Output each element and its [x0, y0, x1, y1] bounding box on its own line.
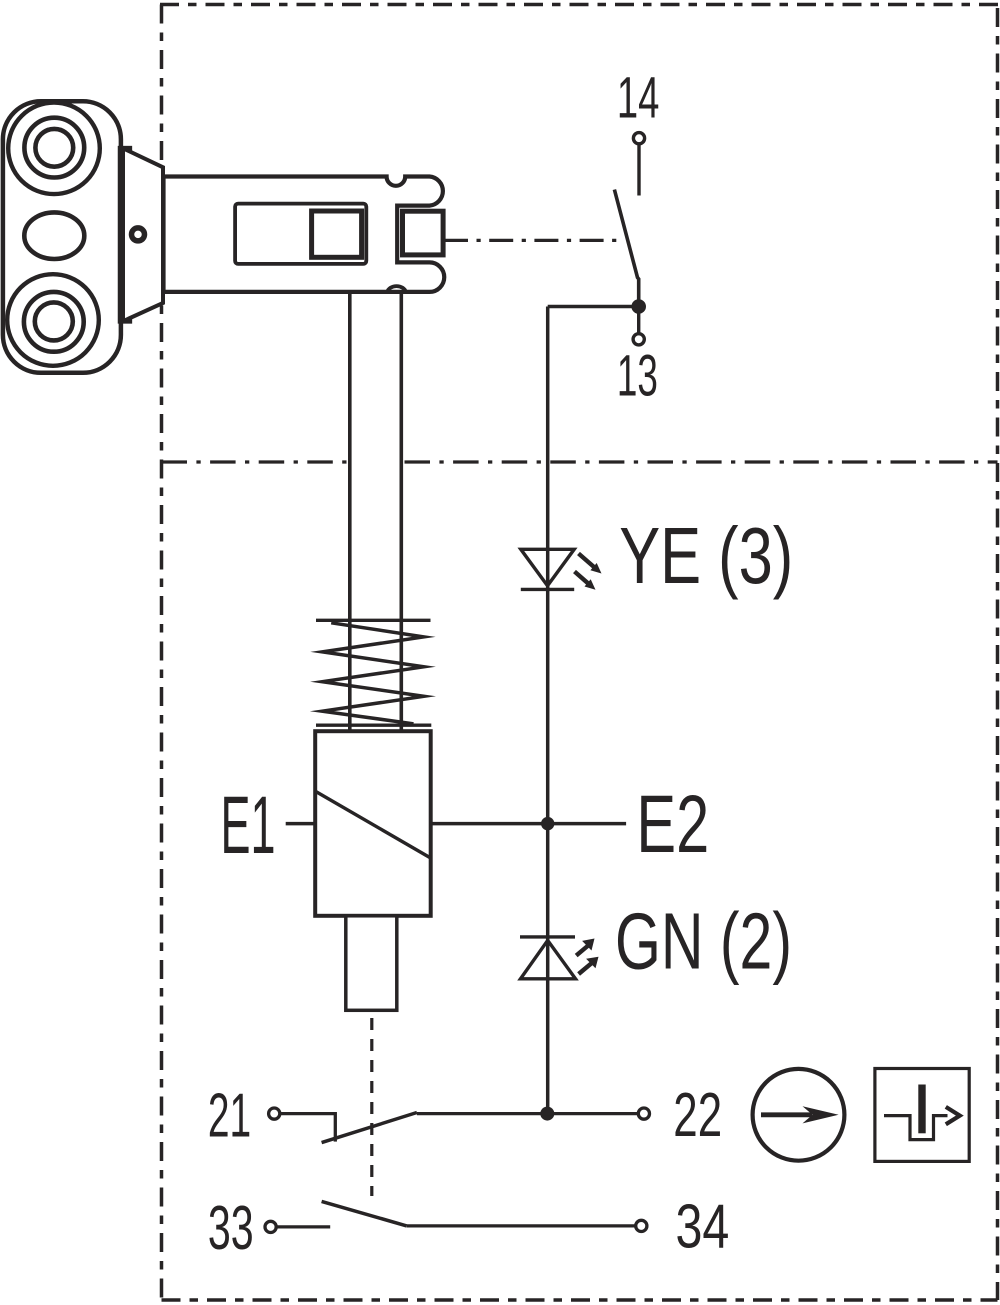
- wire to 22: [417, 1112, 638, 1115]
- terminal circle 34: [636, 1220, 647, 1231]
- wire from 21: [280, 1112, 335, 1115]
- svg-text:E1: E1: [221, 780, 276, 871]
- actuator middle oval hole: [24, 212, 84, 259]
- plunger shaft (white fill over center line): [350, 292, 402, 731]
- terminal circle 22: [638, 1108, 649, 1119]
- actuator top boss inner circle: [35, 129, 73, 167]
- wire from 33: [277, 1225, 331, 1228]
- fixed contact tick: [334, 1112, 337, 1142]
- direction-of-actuation symbol (circle with arrow): [753, 1069, 845, 1161]
- terminal circle 33: [265, 1221, 276, 1232]
- LED GN (2): [520, 937, 599, 979]
- actuator top boss outer circle: [8, 103, 100, 195]
- enclosure dash-dot border frame bottom: [162, 1298, 998, 1302]
- actuator bottom boss outer circle: [7, 274, 99, 366]
- arm slot rectangle: [235, 204, 366, 264]
- wire: E1 terminal tick: [286, 822, 317, 826]
- junction dot at 22 node: [540, 1107, 554, 1121]
- junction dot at E2 node: [541, 817, 554, 830]
- moving blade 21-22: [322, 1113, 417, 1143]
- LED GN anode bar: [520, 935, 575, 938]
- tongue tip block in fork: [403, 211, 444, 255]
- svg-text:13: 13: [617, 344, 658, 409]
- svg-text:GN (2): GN (2): [615, 897, 792, 986]
- svg-text:21: 21: [208, 1082, 251, 1151]
- terminal circle 13: [633, 334, 644, 345]
- moving blade of contact 14-13: [614, 190, 638, 307]
- LED GN light arrow 2: [579, 957, 599, 974]
- wire: main vertical net from 13 junction down to 22 junction: [546, 307, 550, 1114]
- svg-text:33: 33: [208, 1194, 254, 1263]
- svg-text:YE (3): YE (3): [619, 511, 793, 600]
- actuator flange trapezoid: [123, 148, 163, 321]
- terminal circle 14: [633, 133, 644, 144]
- LED YE light arrow 1: [579, 554, 602, 574]
- svg-text:34: 34: [676, 1192, 730, 1261]
- actuator top boss ring: [24, 118, 84, 178]
- contact 33-34 (NO contact, open): [265, 1201, 647, 1232]
- actuator mounting flange thin plate: [120, 148, 131, 322]
- LED YE (3): [521, 549, 602, 590]
- terminal circle 21: [269, 1108, 280, 1119]
- actuator bottom boss inner circle: [35, 302, 73, 340]
- solenoid plunger actuation dashed line: [370, 1018, 373, 1196]
- moving blade 33-34: [322, 1201, 407, 1226]
- enclosure dash-dot border frame top: [160, 3, 1000, 7]
- LED YE light arrow 2: [575, 572, 596, 590]
- enclosure dash-dot border frame right: [996, 8, 1000, 1300]
- wire stub below 14: [637, 144, 640, 195]
- svg-text:22: 22: [673, 1081, 722, 1150]
- solenoid coil box E1: [315, 731, 431, 916]
- contact 14-13 (safety NO contact): [614, 133, 646, 345]
- LED GN light arrow 1: [576, 939, 594, 956]
- svg-text:14: 14: [617, 66, 660, 131]
- switch head arm (tongue channel): [164, 177, 445, 292]
- actuation coupling dash-dot line from tongue to contact 14-13: [444, 239, 618, 242]
- wire stub above 13: [637, 307, 640, 333]
- lower plunger pin: [346, 916, 397, 1011]
- solenoid-actuation pulse symbol box: [875, 1069, 969, 1162]
- wire to 34: [407, 1224, 636, 1227]
- return spring: [316, 620, 431, 725]
- junction dot at node 13: [631, 299, 646, 314]
- actuator body plate: [3, 101, 121, 373]
- LED GN triangle (pointing up): [521, 940, 576, 978]
- svg-text:E2: E2: [636, 779, 709, 870]
- contact 21-22 (NC positive-break contact): [269, 1108, 650, 1143]
- wire: solenoid to E2: [431, 822, 626, 826]
- enclosure dash-dot border frame left: [160, 5, 164, 1305]
- head/actuator separation dash-dot center line: [162, 460, 998, 463]
- pivot dot on flange: [132, 228, 145, 241]
- bottom notch dome on arm: [387, 286, 406, 292]
- LED YE cathode bar: [521, 588, 574, 591]
- LED YE triangle (cathode down): [521, 549, 574, 585]
- actuator bottom boss ring: [24, 292, 84, 352]
- wire: node 13 junction to E2 column (horizontal): [548, 305, 639, 309]
- slider block in slot: [312, 211, 362, 257]
